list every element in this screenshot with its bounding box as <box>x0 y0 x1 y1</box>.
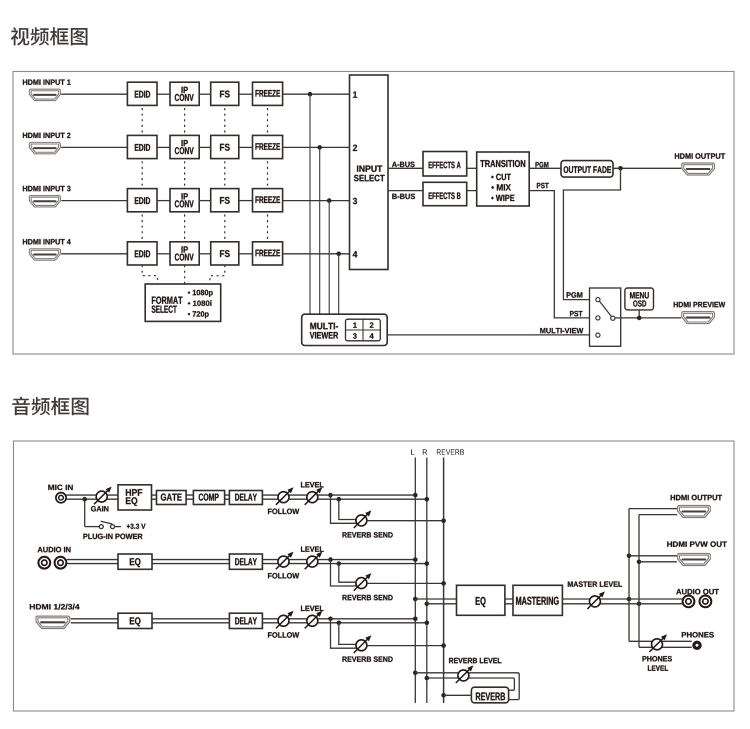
LEVEL label line-in row <box>301 547 324 552</box>
AUDIO OUT jack right <box>700 596 712 608</box>
FS box row 2 <box>211 135 239 158</box>
AUDIO IN jack right <box>55 557 67 569</box>
wire EFFECTS B to TRANSITION <box>467 190 477 192</box>
A-BUS wire <box>388 167 423 169</box>
IP CONV box row 3 <box>170 189 199 212</box>
wire FREEZE to INPUT SELECT row 1 <box>283 93 350 95</box>
switch arm <box>600 301 612 316</box>
REVERB SEND label line-in row <box>343 595 393 601</box>
switch common pin <box>611 316 615 320</box>
PGM return wire to preview switch <box>563 168 620 299</box>
dashed column under FS boxes <box>224 108 226 241</box>
MIC IN jack icon <box>56 493 66 503</box>
HDMI OUTPUT label <box>675 153 725 159</box>
IP CONV box row 4 <box>170 242 199 265</box>
master EQ box <box>457 585 505 615</box>
audio diagram title <box>12 397 88 416</box>
PST wire to preview switch <box>529 191 593 318</box>
wire EDID to IP CONV row 3 <box>157 200 170 202</box>
wire row 2 to multi-viewer <box>319 147 321 314</box>
wire FREEZE to INPUT SELECT row 4 <box>283 253 350 255</box>
wire EDID to IP CONV row 2 <box>157 146 170 148</box>
FOLLOW knob line-in row <box>276 552 294 570</box>
wire FS to FREEZE row 3 <box>239 200 253 202</box>
dashed column under EDID boxes <box>141 108 143 241</box>
junction dot row 3 <box>327 198 332 203</box>
reverb bus dot hdmi row <box>441 643 446 648</box>
switch pin PST <box>596 316 600 320</box>
HDMI PREVIEW connector icon <box>682 312 715 324</box>
DELAY box line-in row <box>229 554 262 569</box>
wire row 3 to multi-viewer <box>328 201 330 315</box>
R bus dot mic row <box>425 497 430 502</box>
audio diagram frame <box>14 441 735 711</box>
reverb send branch dots mic row <box>328 493 333 498</box>
MULTI-VIEW label <box>540 328 583 333</box>
LEVEL label hdmi row <box>301 606 324 611</box>
REVERB SEND label hdmi row <box>343 656 393 662</box>
switch pin MULTI-VIEW <box>596 333 600 337</box>
EDID box row 4 <box>127 242 157 265</box>
HDMI 1/2/3/4 connector icon <box>36 616 70 628</box>
EDID box row 1 <box>127 82 157 105</box>
stereo wire pair AUDIO IN row <box>67 560 427 564</box>
PGM wire TRANSITION to OUTPUT FADE <box>529 167 561 169</box>
MENU OSD box <box>625 288 654 310</box>
reverb send branch dots line-in row <box>328 557 333 562</box>
+3.3 V label <box>127 524 146 529</box>
EDID box row 3 <box>127 189 157 212</box>
DELAY box hdmi row <box>229 613 262 628</box>
wire FS to FREEZE row 1 <box>239 93 253 95</box>
reverb send branch wires hdmi row <box>331 619 361 648</box>
output bus vertical left <box>628 509 630 642</box>
REVERB SEND label mic row <box>343 532 393 538</box>
EQ box hdmi row <box>118 613 152 628</box>
dashed column under FREEZE boxes <box>267 108 269 241</box>
DELAY box mic row <box>229 491 262 505</box>
FOLLOW knob mic row <box>276 487 294 505</box>
HDMI OUTPUT audio label <box>671 495 722 501</box>
wire IP CONV to FS row 3 <box>199 200 211 202</box>
L bus line <box>414 458 416 704</box>
multi-viewer screen grid <box>346 319 381 341</box>
FREEZE box row 1 <box>253 82 283 105</box>
wire input 3 to EDID <box>61 200 127 202</box>
video diagram frame <box>13 72 734 355</box>
wires MASTERING to outputs <box>562 599 639 604</box>
HDMI PVW OUT label <box>667 541 727 547</box>
PHONES LEVEL knob <box>649 634 667 652</box>
wire switch to +3.3V <box>115 526 121 528</box>
video diagram title <box>11 27 88 45</box>
HDMI 1/2/3/4 label <box>30 604 80 610</box>
L bus dot hdmi row <box>413 617 418 622</box>
FREEZE box row 4 <box>253 242 283 265</box>
IP CONV box row 2 <box>170 135 199 158</box>
HDMI PVW OUT connector icon <box>678 554 711 566</box>
EDID box row 2 <box>127 135 157 158</box>
OUTPUT FADE box <box>561 161 613 178</box>
wires to HDMI PVW OUT <box>629 556 677 562</box>
A-BUS label <box>392 162 415 168</box>
wire EDID to IP CONV row 1 <box>157 93 170 95</box>
LEVEL knob mic row <box>305 487 323 505</box>
PST label <box>537 183 549 189</box>
HDMI INPUT 1 label <box>23 80 71 85</box>
stereo wire pair MIC row <box>66 495 427 499</box>
reverb bus to REVERB box dot <box>441 693 446 698</box>
FS box row 1 <box>211 82 239 105</box>
FOLLOW label mic row <box>268 509 299 514</box>
plug-in power switch contact 1 <box>99 525 103 529</box>
PHONES LEVEL label <box>643 656 672 662</box>
FS box row 3 <box>211 189 239 212</box>
wire reverb bus to REVERB box <box>444 694 472 696</box>
REVERB LEVEL knob <box>456 665 474 683</box>
LEVEL knob hdmi row <box>305 611 323 629</box>
GATE box <box>157 491 187 505</box>
wires to HDMI OUTPUT audio <box>629 509 677 515</box>
AUDIO IN label <box>38 547 71 553</box>
switch pin PGM <box>596 298 600 302</box>
AUDIO IN jack left <box>38 557 50 569</box>
output bus vertical right <box>638 515 640 648</box>
wires to AUDIO OUT <box>629 599 683 604</box>
MASTERING box <box>513 585 562 615</box>
PHONES label <box>682 632 714 638</box>
wires to PHONES <box>629 641 692 647</box>
FOLLOW label hdmi row <box>268 632 299 638</box>
PGM label <box>536 162 549 168</box>
branch dots HDMI PVW OUT <box>627 554 632 559</box>
stereo wire pair HDMI audio row <box>71 619 427 623</box>
junction dot before HDMI PREVIEW <box>637 316 642 321</box>
REVERB SEND knob hdmi row <box>354 635 372 653</box>
reverb return wire lower <box>427 678 515 690</box>
wires EQ to MASTERING <box>505 599 513 604</box>
reverb send branch dots hdmi row <box>328 617 333 622</box>
PLUG-IN POWER label <box>83 534 142 540</box>
LEVEL knob line-in row <box>305 552 323 570</box>
FOLLOW label line-in row <box>268 573 299 579</box>
REVERB LEVEL label <box>449 658 501 663</box>
reverb bus dot line-in row <box>441 581 446 586</box>
HDMI INPUT 4 label <box>23 239 71 244</box>
HDMI OUTPUT connector icon <box>682 163 715 175</box>
COMP box <box>193 491 224 505</box>
FREEZE box row 2 <box>253 135 283 158</box>
EFFECTS A box <box>423 152 467 177</box>
wire input 4 to EDID <box>61 253 127 255</box>
wire row 4 to multi-viewer <box>338 254 340 314</box>
PHONES jack icon <box>692 641 701 650</box>
wire FREEZE to INPUT SELECT row 2 <box>283 146 350 148</box>
HPF EQ box <box>118 485 152 510</box>
bus to EQ dots <box>413 597 418 602</box>
FORMAT SELECT box <box>145 284 221 321</box>
reverb return dots <box>413 671 418 676</box>
REVERB bus line <box>443 458 445 704</box>
HDMI INPUT 1 connector icon <box>29 89 60 100</box>
output branch dots <box>627 597 632 602</box>
wire IP CONV to FS row 1 <box>199 93 211 95</box>
R bus dot line-in row <box>425 561 430 566</box>
reverb send branch wires mic row <box>331 495 361 523</box>
junction dot row 4 <box>336 252 341 257</box>
R bus line <box>426 458 428 704</box>
junction dot after OUTPUT FADE <box>618 166 623 171</box>
INPUT SELECT box <box>350 75 389 270</box>
dashed elbow EDID to FORMAT SELECT <box>142 265 157 284</box>
B-BUS label <box>392 194 415 200</box>
GAIN knob <box>94 487 112 505</box>
REVERB box <box>471 687 508 703</box>
plug-in power switch lever <box>101 521 113 524</box>
plug-in power switch contact 2 <box>111 525 115 529</box>
wire switch to HDMI PREVIEW <box>615 317 681 319</box>
EFFECTS B box <box>423 182 467 205</box>
dashed elbow FS to FORMAT SELECT <box>210 265 225 284</box>
AUDIO OUT label <box>676 589 719 595</box>
REVERB SEND wire line-in row <box>367 582 444 584</box>
wire IP CONV to FS row 4 <box>199 253 211 255</box>
bus to master EQ wires <box>415 599 456 604</box>
L bus label <box>411 449 415 455</box>
wire input 2 to EDID <box>61 146 127 148</box>
MULTI-VIEWER box <box>302 314 388 345</box>
reverb send branch wires line-in row <box>331 560 361 586</box>
R bus dot hdmi row <box>425 621 430 626</box>
wire FS to FREEZE row 2 <box>239 146 253 148</box>
wire FS to FREEZE row 4 <box>239 253 253 255</box>
MASTER LEVEL knob <box>587 591 605 609</box>
junction dot row 2 <box>317 145 322 150</box>
LEVEL label mic row <box>301 482 324 487</box>
MASTER LEVEL label <box>568 581 622 587</box>
junction dot to plug-in power <box>82 497 87 502</box>
AUDIO OUT jack left <box>683 596 695 608</box>
reverb bus dot mic row <box>441 518 446 523</box>
MIC IN label <box>48 485 72 491</box>
PST label at switch <box>570 311 583 317</box>
IP CONV box row 1 <box>170 82 199 105</box>
reverb return wire upper <box>415 673 519 700</box>
dashed line IP CONV to FORMAT SELECT <box>184 265 186 284</box>
HDMI INPUT 3 connector icon <box>29 196 60 207</box>
HDMI INPUT 2 label <box>23 133 71 139</box>
wire FREEZE to INPUT SELECT row 3 <box>283 200 350 202</box>
HDMI INPUT 2 connector icon <box>29 142 60 153</box>
REVERB SEND wire hdmi row <box>367 645 444 647</box>
PGM label at switch <box>567 292 583 298</box>
REVERB SEND wire mic row <box>367 520 444 522</box>
wire OUTPUT FADE to HDMI OUTPUT <box>613 167 681 169</box>
REVERB bus label <box>437 449 464 455</box>
MULTI-VIEW wire to preview switch <box>387 334 593 336</box>
FS box row 4 <box>211 242 239 265</box>
wire EDID to IP CONV row 4 <box>157 253 170 255</box>
GAIN label <box>91 506 108 512</box>
junction dot row 1 <box>308 92 313 97</box>
TRANSITION box <box>477 152 530 206</box>
R bus label <box>423 449 427 455</box>
L bus dot line-in row <box>413 557 418 562</box>
HDMI INPUT 4 connector icon <box>29 249 60 260</box>
HDMI INPUT 3 label <box>23 186 71 192</box>
REVERB SEND knob line-in row <box>354 573 372 591</box>
L bus dot mic row <box>413 493 418 498</box>
preview selector switch box <box>590 288 621 346</box>
wire to plug-in power switch <box>84 499 86 526</box>
wire EFFECTS A to TRANSITION <box>467 167 477 169</box>
REVERB SEND knob mic row <box>354 510 372 528</box>
HDMI OUTPUT audio connector icon <box>678 506 711 518</box>
FREEZE box row 3 <box>253 189 283 212</box>
EQ box line-in row <box>118 554 152 569</box>
wire MENU OSD to output <box>638 310 640 318</box>
wire row 1 to multi-viewer <box>309 94 311 314</box>
wire input 1 to EDID <box>61 93 127 95</box>
dashed column under IP CONV boxes <box>184 108 186 241</box>
FOLLOW knob hdmi row <box>276 611 294 629</box>
B-BUS wire <box>388 190 423 192</box>
HDMI PREVIEW label <box>674 302 726 307</box>
wire IP CONV to FS row 2 <box>199 146 211 148</box>
